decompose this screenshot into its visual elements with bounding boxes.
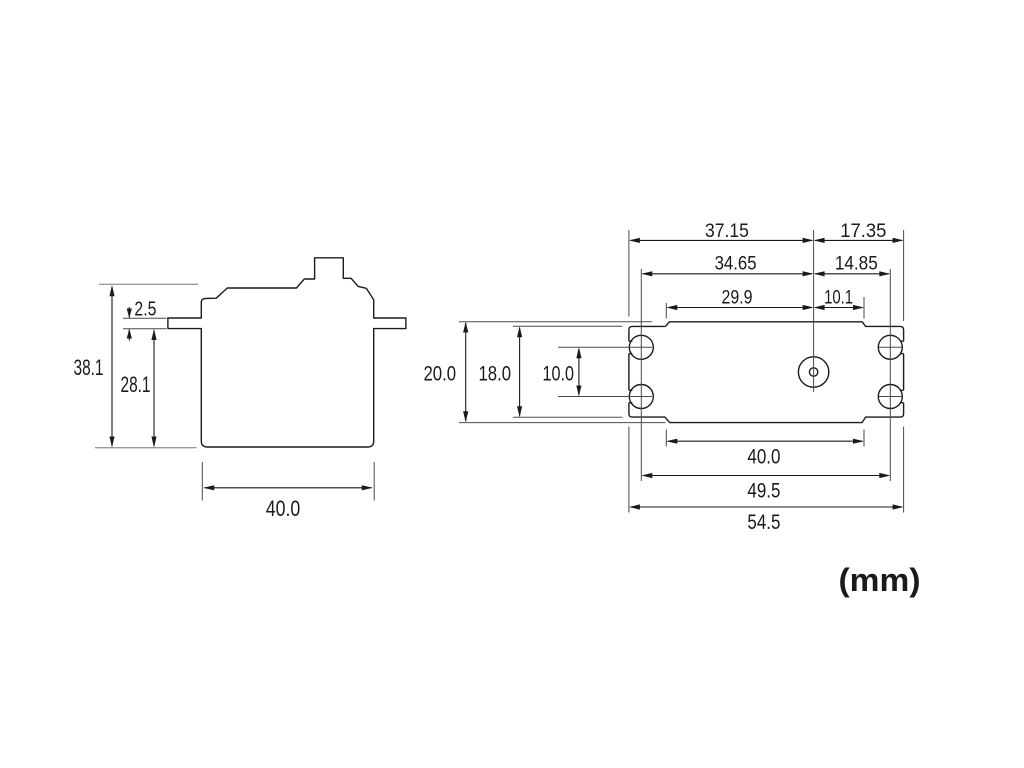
dim 28.1 vertical arrow — [151, 329, 156, 448]
hole notch nubs right — [900, 341, 903, 403]
ext line: top level (38.1) — [99, 283, 198, 285]
dim 10.0 vertical — [576, 347, 581, 396]
vertical ext: left hole column — [640, 269, 642, 481]
svg-text:10.0: 10.0 — [543, 362, 575, 386]
dim 14.85 — [814, 271, 891, 276]
svg-text:54.5: 54.5 — [747, 510, 780, 534]
dim 40.0 bottom — [666, 439, 864, 444]
dim 34.65 — [641, 271, 813, 276]
svg-text:18.0: 18.0 — [479, 362, 512, 386]
crosshair right top hole — [879, 346, 902, 348]
svg-text:17.35: 17.35 — [840, 220, 886, 242]
dim 37.15 — [629, 238, 814, 243]
ext line: bottom level (38.1/28.1) — [95, 447, 197, 449]
crosshair right bottom hole — [879, 396, 902, 398]
horizontal ext: flange bottom (18.0) — [513, 416, 623, 418]
dim 17.35 — [814, 238, 904, 243]
svg-text:28.1: 28.1 — [121, 372, 151, 397]
dim 2.5 arrows — [127, 307, 132, 341]
top outline: flange + body with steps — [629, 322, 904, 423]
horizontal ext: body top (20.0) — [459, 321, 652, 323]
ext line: flange bottom (2.5) — [123, 328, 167, 330]
dim 18.0 vertical — [517, 326, 522, 417]
svg-text:49.5: 49.5 — [747, 479, 780, 503]
svg-text:14.85: 14.85 — [835, 253, 878, 275]
dim 38.1 vertical arrow — [109, 285, 114, 447]
svg-text:20.0: 20.0 — [424, 362, 457, 386]
horizontal ext: body bottom (20.0) — [459, 422, 666, 424]
horizontal ext: bottom hole row (10.0) — [558, 396, 652, 398]
svg-text:37.15: 37.15 — [705, 220, 749, 242]
mounting hole top-left — [629, 335, 653, 359]
vertical ext: body left step top — [665, 303, 667, 319]
vertical ext: left flange edge bottom — [628, 427, 630, 513]
mounting hole bottom-left — [629, 385, 653, 409]
svg-text:40.0: 40.0 — [747, 445, 780, 469]
servo body outline (side view) — [168, 258, 406, 447]
dim 49.5 — [641, 473, 890, 478]
vertical ext: right flange edge top — [903, 230, 905, 321]
vertical ext: body right step top — [863, 297, 865, 319]
output shaft inner circle — [809, 368, 817, 376]
dim 20.0 vertical — [463, 322, 468, 423]
svg-text:29.9: 29.9 — [722, 287, 753, 309]
svg-text:38.1: 38.1 — [74, 355, 104, 380]
vertical ext: right flange edge bottom — [903, 427, 905, 513]
dim 29.9 — [666, 305, 813, 310]
mounting hole top-right — [878, 335, 902, 359]
svg-text:34.65: 34.65 — [715, 253, 757, 275]
svg-text:10.1: 10.1 — [824, 287, 853, 309]
hole notch nubs left — [629, 341, 632, 403]
ext lines for 40.0 (left view) — [201, 462, 203, 501]
horizontal ext: top hole row (10.0) — [558, 346, 652, 348]
dim 54.5 — [629, 504, 904, 509]
output shaft outer circle — [798, 357, 828, 387]
svg-text:40.0: 40.0 — [266, 496, 301, 521]
vertical ext: body left step bottom — [665, 430, 667, 447]
dim 40.0 (left view) — [203, 485, 373, 490]
mounting hole bottom-right — [878, 385, 902, 409]
svg-text:2.5: 2.5 — [134, 298, 156, 321]
vertical ext: shaft center — [813, 230, 815, 392]
svg-text:(mm): (mm) — [839, 562, 921, 598]
vertical ext: right hole column — [889, 269, 891, 481]
horizontal ext: flange top (18.0) — [513, 325, 623, 327]
ext line: flange top (2.5) — [123, 317, 167, 319]
vertical ext: body right step bottom — [863, 430, 865, 447]
vertical ext: left flange edge top — [628, 230, 630, 317]
dim 10.1 — [814, 305, 864, 310]
